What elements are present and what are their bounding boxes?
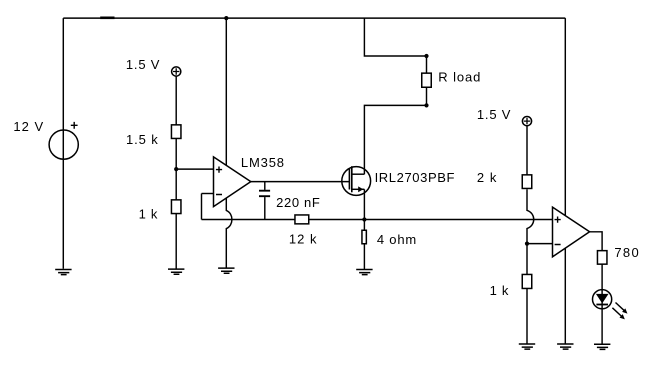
svg-text:R load: R load <box>438 69 481 84</box>
resistor R4 12 k body <box>295 215 309 224</box>
wire R3 bottom to ground <box>175 214 177 269</box>
wire U2 V+ pin from rail <box>564 18 566 215</box>
LED D1 light arrow 1 <box>614 301 629 316</box>
resistor R3 1 k body <box>171 200 181 214</box>
op-amp U1 plus input mark <box>216 167 222 173</box>
resistor R2 1.5 k body <box>171 125 181 139</box>
voltage source V1 plus sign <box>71 122 78 129</box>
svg-text:1.5 V: 1.5 V <box>477 107 511 122</box>
svg-text:1.5 k: 1.5 k <box>126 132 159 147</box>
power flag 1.5 V right plus <box>524 118 530 124</box>
node R load bottom dot <box>424 103 428 107</box>
wire R load top lead <box>426 56 428 73</box>
wire op-amp U1 V+ pin from rail <box>225 18 227 165</box>
wire top rail <box>63 17 565 19</box>
wire left vertical from rail to ground through source <box>62 18 64 269</box>
transistor Q1 arrow <box>358 186 363 192</box>
wire flag to R6 top <box>526 126 528 175</box>
svg-text:1.5 V: 1.5 V <box>126 57 160 72</box>
wire divider node to op-amp + input <box>176 168 213 170</box>
power flag 1.5 V left circle <box>172 67 181 76</box>
wire Q1 source down to lower net <box>363 189 365 219</box>
wire R6 bottom with hop over lower net to minus node <box>527 189 534 243</box>
svg-text:220 nF: 220 nF <box>276 195 320 210</box>
capacitor C1 plates <box>259 191 270 197</box>
node R load top dot <box>424 54 428 58</box>
node divider junction dot <box>174 167 178 171</box>
ground G5 below R7 <box>519 344 535 349</box>
wire feedback down segment <box>201 194 203 220</box>
svg-text:12 k: 12 k <box>289 231 318 246</box>
ground G6 below op-amp U2 <box>557 344 573 349</box>
wire U2 V- pin to ground <box>564 248 566 344</box>
svg-text:LM358: LM358 <box>241 155 285 170</box>
svg-text:1 k: 1 k <box>490 283 510 298</box>
node source junction dot <box>362 217 366 221</box>
wire U1 minus input stub <box>202 193 214 195</box>
op-amp U2 plus input mark <box>555 217 561 223</box>
capacitor C1 bottom lead <box>264 197 266 219</box>
power flag 1.5 V left plus <box>173 68 179 74</box>
wire R2 bottom to R3 top <box>175 139 177 200</box>
wire R load bottom to MOSFET drain <box>364 105 426 174</box>
svg-text:4 ohm: 4 ohm <box>377 232 417 247</box>
capacitor C1 top lead <box>264 182 266 190</box>
wire source node to R5 top <box>363 220 365 231</box>
op-amp U2 minus input mark <box>555 244 561 246</box>
power flag 1.5 V right circle <box>522 117 531 126</box>
transistor Q1 circle <box>342 167 371 196</box>
node rail junction dot <box>224 16 228 20</box>
wire rail branch down to R load <box>364 18 426 56</box>
wire R5 bottom to ground <box>363 244 365 269</box>
svg-text:2 k: 2 k <box>477 170 498 185</box>
resistor R5 4 ohm body <box>362 230 366 244</box>
wire R8 bottom to LED and ground <box>601 264 603 344</box>
transistor Q1 source tap <box>352 188 365 190</box>
transistor Q1 gate bar <box>348 169 350 190</box>
transistor Q1 drain tap <box>352 173 365 175</box>
wire flag to R2 top <box>175 76 177 125</box>
svg-text:12 V: 12 V <box>13 119 44 134</box>
wire U1 V- pin with hop over lower net <box>226 198 232 268</box>
ground G4 below R5 <box>356 270 372 275</box>
LED D1 triangle <box>596 294 609 304</box>
node U2 minus junction dot <box>525 242 529 246</box>
op-amp U1 minus input mark <box>216 194 222 196</box>
wire minus node to U2 minus input <box>527 243 553 245</box>
resistor R7 1 k body <box>522 274 532 288</box>
wire U1 output to MOSFET gate <box>251 181 350 183</box>
op-amp U2 triangle <box>553 207 590 257</box>
LED D1 light arrow 2 <box>611 306 627 321</box>
ground G1 below 12V source <box>55 270 71 275</box>
svg-text:780: 780 <box>614 245 640 260</box>
wire R load bottom lead <box>426 87 428 105</box>
resistor R8 780 body <box>597 251 607 265</box>
svg-text:IRL2703PBF: IRL2703PBF <box>375 170 455 185</box>
wire R7 bottom to ground <box>526 289 528 344</box>
svg-text:1 k: 1 k <box>139 207 159 222</box>
LED D1 cathode bar <box>596 304 608 306</box>
LED D1 circle <box>593 290 612 309</box>
resistor R load body <box>422 73 432 87</box>
transistor Q1 channel bar <box>351 166 353 192</box>
op-amp U1 triangle <box>214 157 251 207</box>
wire minus node down to R7 top <box>526 244 528 275</box>
ground G3 below op-amp U1 <box>218 268 234 273</box>
wire main lower net <box>202 219 553 221</box>
voltage source V1 12 V circle <box>49 130 78 159</box>
ground G2 below divider <box>168 269 184 274</box>
resistor R6 2 k body <box>522 175 532 189</box>
wire U2 output to R8 <box>590 232 603 251</box>
wire overlap segment on top rail <box>100 16 114 19</box>
ground G7 below LED <box>594 344 610 349</box>
